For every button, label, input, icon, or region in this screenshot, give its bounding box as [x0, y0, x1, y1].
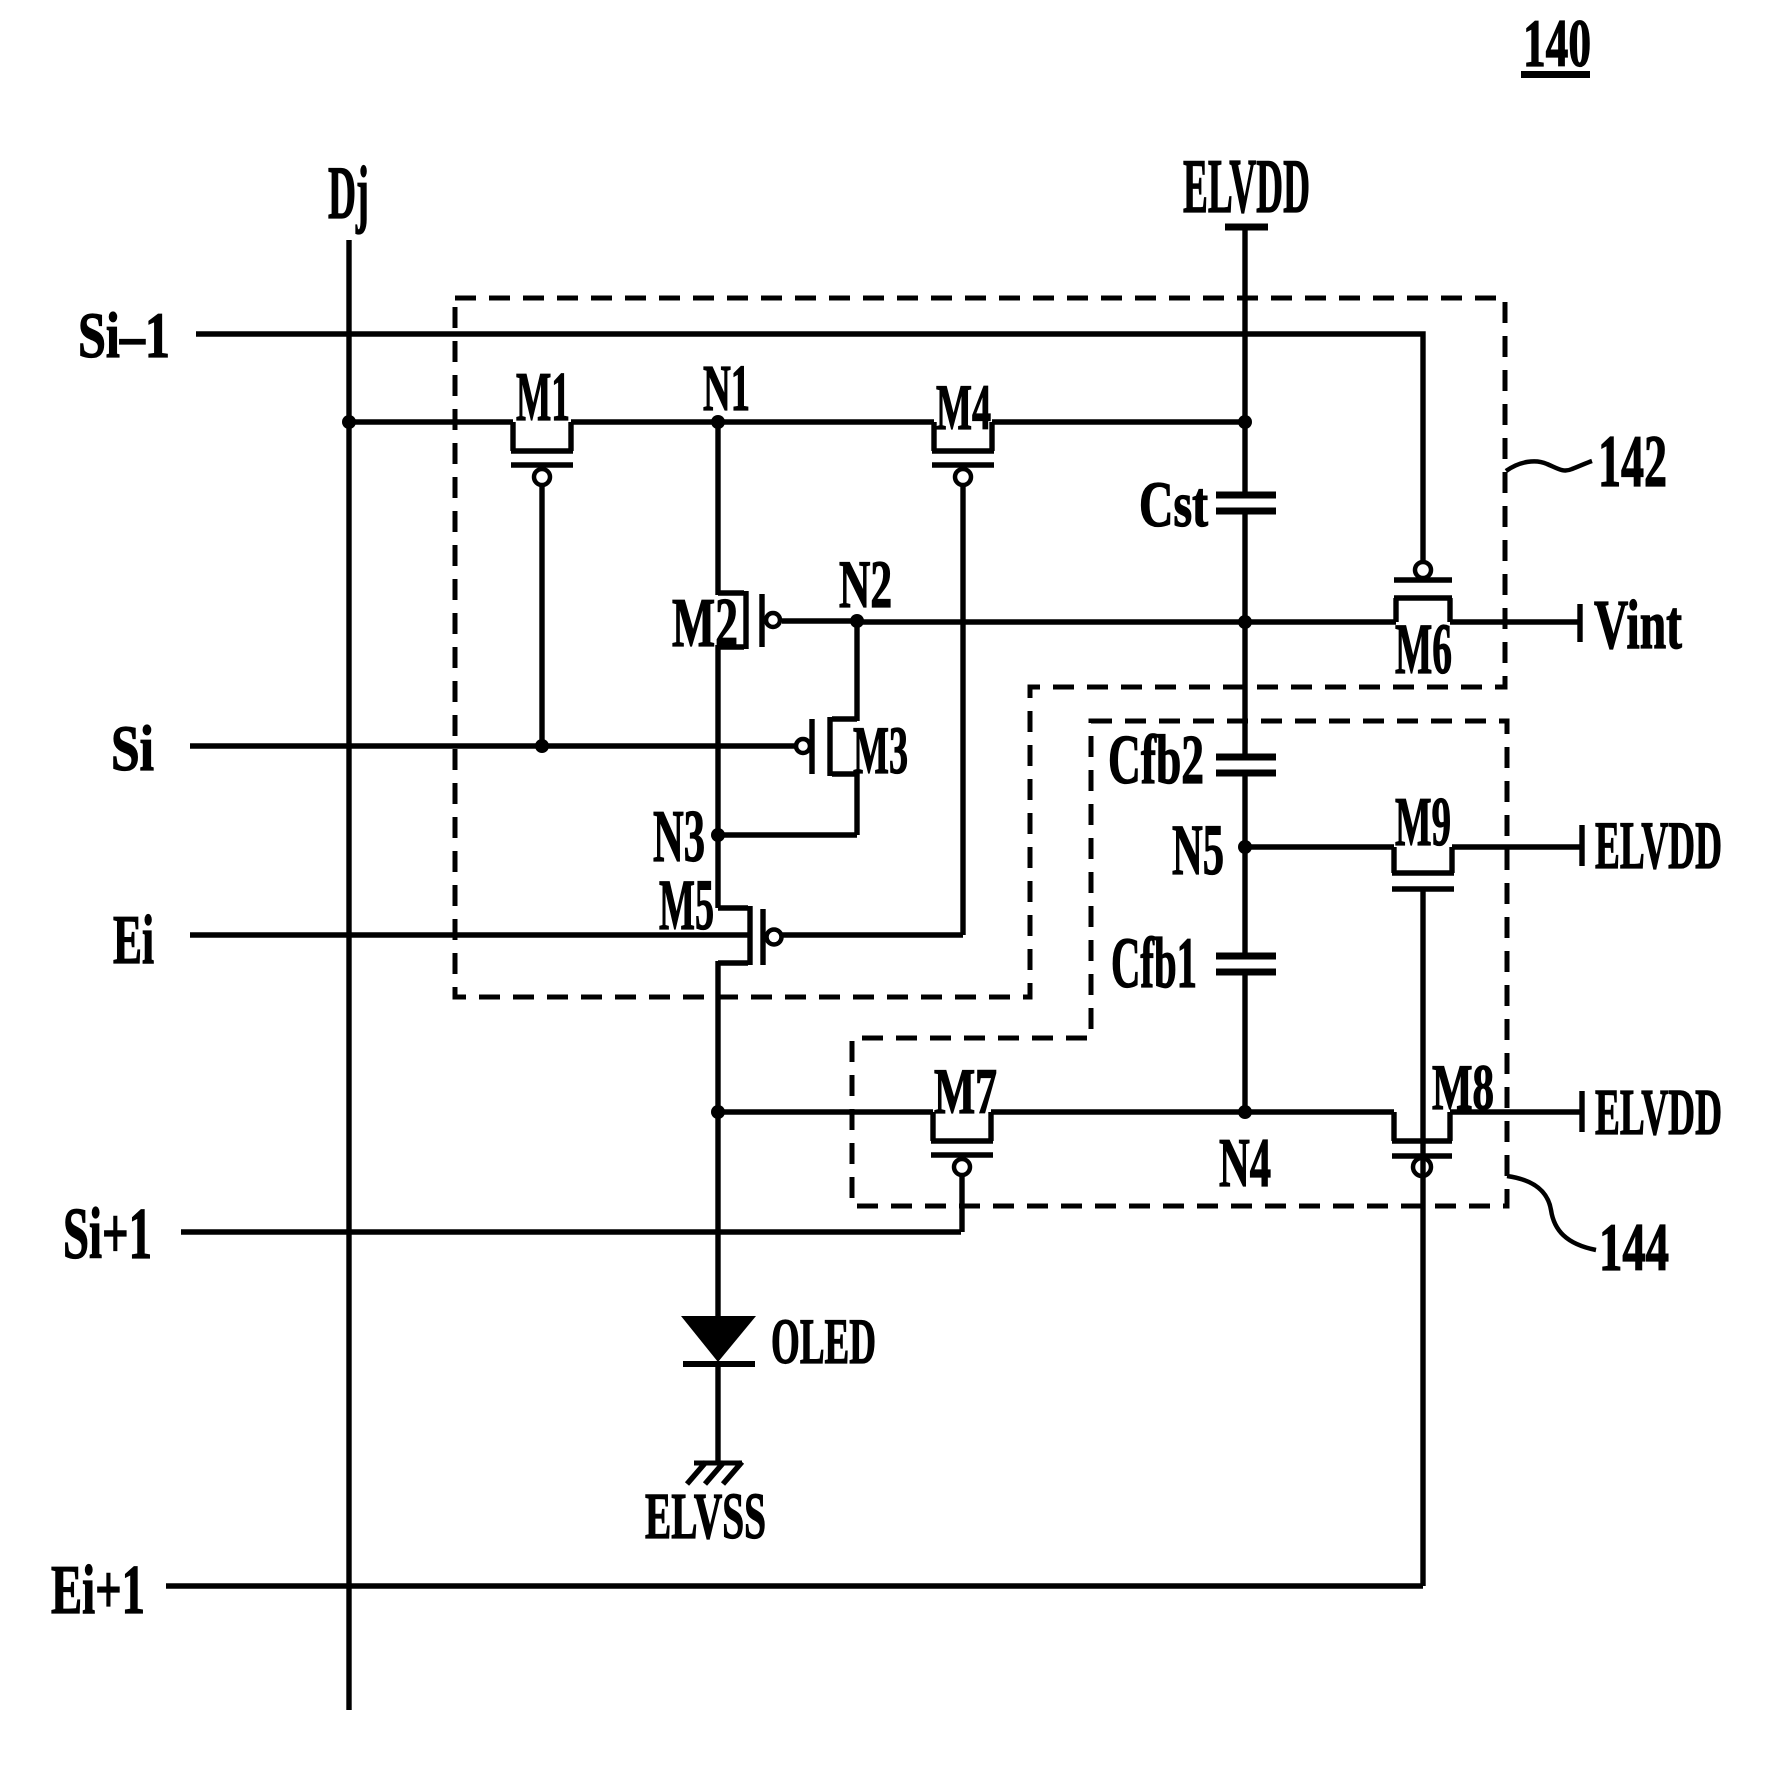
svg-text:N1: N1	[703, 352, 750, 425]
svg-text:ELVSS: ELVSS	[645, 1480, 766, 1553]
node N4	[1238, 1105, 1252, 1119]
wire N4 row middle	[991, 1109, 1394, 1114]
wire Ei+1 scan line	[166, 1583, 1423, 1588]
svg-text:M3: M3	[853, 712, 908, 788]
transistor M9	[1392, 847, 1454, 1586]
wire Dj vertical data line	[346, 240, 351, 1710]
svg-text:N5: N5	[1172, 810, 1224, 890]
terminal ELVDD right N4 row	[1579, 1091, 1584, 1132]
transistor M3 diode-connected	[718, 621, 857, 835]
capacitor Cst	[1216, 495, 1276, 754]
svg-text:144: 144	[1599, 1209, 1669, 1285]
transistor M5	[718, 833, 782, 1112]
svg-text:OLED: OLED	[771, 1306, 876, 1378]
svg-text:Ei+1: Ei+1	[51, 1552, 145, 1629]
wire Ei to M4 gate	[782, 932, 963, 937]
svg-text:Si+1: Si+1	[63, 1193, 152, 1274]
svg-text:Cfb2: Cfb2	[1108, 722, 1204, 799]
wire M8 to ELVDD	[1450, 1109, 1580, 1114]
wire M6 to Vint	[1450, 619, 1578, 624]
capacitor Cfb2	[1216, 757, 1276, 953]
svg-text:M2: M2	[672, 585, 738, 662]
svg-text:M6: M6	[1395, 609, 1452, 689]
ground ELVSS	[687, 1462, 742, 1484]
capacitor Cfb1	[1216, 956, 1276, 1112]
wire M9 to ELVDD	[1452, 844, 1580, 849]
node junction Si/M1-gate	[535, 739, 549, 753]
transistor M1	[511, 422, 573, 746]
transistor M2 with N1-N3 branch	[718, 422, 857, 835]
svg-text:Cst: Cst	[1139, 469, 1208, 541]
svg-text:ELVDD: ELVDD	[1595, 807, 1722, 883]
wire N2 row to M6	[857, 619, 1396, 624]
transistor M7	[931, 1112, 993, 1232]
node junction N1-row/ELVDD line	[1238, 415, 1252, 429]
diode OLED	[681, 1112, 756, 1462]
svg-text:ELVDD: ELVDD	[1183, 143, 1310, 229]
transistor M6	[1394, 562, 1452, 622]
wire N5 row	[1245, 844, 1394, 849]
svg-text:N2: N2	[839, 546, 892, 622]
terminal Vint	[1577, 604, 1582, 642]
wire Si-1 scan line	[196, 334, 1423, 562]
node N5	[1238, 840, 1252, 854]
dashed box 144	[852, 721, 1507, 1206]
svg-text:140: 140	[1523, 5, 1591, 81]
svg-text:Si–1: Si–1	[78, 300, 170, 372]
svg-text:M1: M1	[516, 359, 570, 436]
svg-text:M7: M7	[934, 1056, 997, 1128]
squiggle leader to 144	[1507, 1176, 1596, 1250]
label 140	[1521, 5, 1591, 81]
svg-text:N4: N4	[1219, 1125, 1271, 1202]
node junction N2/ELVDD line	[1238, 615, 1252, 629]
node junction Dj/N1-row	[342, 415, 356, 429]
svg-text:Si: Si	[111, 713, 154, 785]
svg-text:M9: M9	[1395, 784, 1451, 861]
wire Si+1 scan line	[181, 1229, 961, 1234]
transistor M8	[1392, 1112, 1452, 1176]
svg-text:M4: M4	[936, 372, 991, 444]
svg-text:ELVDD: ELVDD	[1595, 1076, 1722, 1149]
wire Ei scan line	[190, 932, 750, 937]
svg-text:Dj: Dj	[328, 152, 369, 235]
svg-text:Vint: Vint	[1594, 587, 1682, 664]
svg-text:142: 142	[1598, 421, 1667, 503]
wire N4 row left	[718, 1109, 933, 1114]
dashed box 142	[455, 298, 1505, 997]
squiggle leader to 142	[1506, 461, 1592, 471]
wire N1 row	[349, 419, 1245, 424]
svg-text:Cfb1: Cfb1	[1111, 923, 1197, 1003]
node junction M5-drain/N4/OLED	[711, 1105, 725, 1119]
terminal ELVDD right N5 row	[1579, 825, 1584, 866]
svg-text:Ei: Ei	[113, 902, 154, 979]
power ELVDD top terminal	[1225, 227, 1268, 492]
wire Si scan line	[190, 743, 796, 748]
transistor M4	[932, 422, 994, 935]
node N1	[711, 415, 725, 429]
node N2	[850, 614, 864, 628]
node N3	[711, 828, 725, 842]
